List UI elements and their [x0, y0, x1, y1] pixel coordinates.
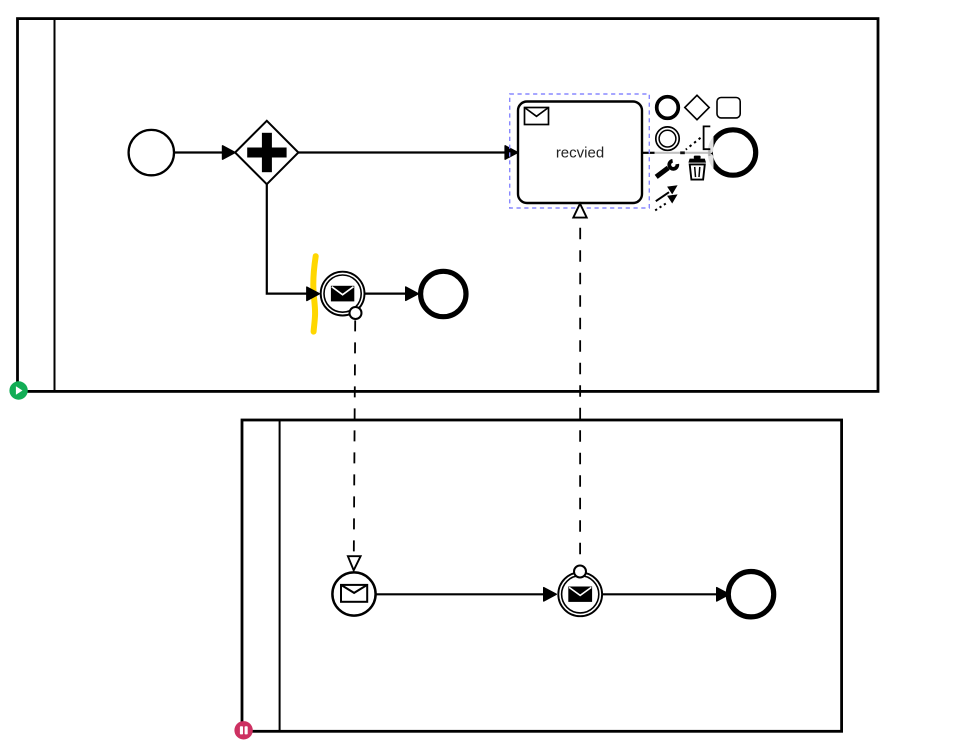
- sequence flow gateway->message throw event: [267, 183, 320, 301]
- token simulation pause badge (bottom pool): [234, 721, 252, 739]
- parallel gateway: [235, 121, 298, 184]
- message flow throw event -> message start (dashed): [348, 320, 361, 570]
- sequence flow throw->end (bottom pool): [602, 588, 729, 601]
- selection outline around task: [510, 94, 650, 208]
- context pad icon: text annotation: [686, 126, 711, 149]
- message flow dot on throw event: [350, 307, 362, 319]
- svg-text:recvied: recvied: [556, 145, 604, 162]
- sequence flow start->throw (bottom pool): [376, 588, 557, 601]
- pool Participant bottom: [242, 420, 842, 731]
- pool Participant top: [18, 19, 879, 392]
- sequence flow throw->end (top pool): [365, 287, 419, 300]
- token simulation play badge (top pool): [9, 381, 27, 399]
- sequence flow task->end event (appears greyed under context pad): [642, 150, 711, 156]
- context pad entry backgrounds: [654, 94, 744, 214]
- end event (bottom pool): [728, 572, 773, 617]
- context pad icon: trash (delete): [688, 156, 706, 180]
- message start event (bottom pool): [332, 572, 375, 615]
- message flow middle throw -> task (dashed): [573, 204, 586, 565]
- message flow dot on bottom throw event: [574, 566, 586, 578]
- context pad icon: wrench (replace): [656, 159, 679, 177]
- yellow highlight mark: [313, 256, 315, 331]
- end event (top pool, right of task): [710, 130, 755, 175]
- context pad icon: append end event: [657, 97, 679, 119]
- end event (top pool, after throw): [421, 271, 466, 316]
- start event (top pool): [129, 130, 174, 175]
- context pad icon: append intermediate event: [656, 127, 679, 150]
- context pad icon: connect (arrows): [655, 185, 677, 210]
- sequence flow gateway->task: [298, 146, 517, 159]
- context pad icon: append task: [717, 98, 740, 118]
- context pad icon: append gateway: [685, 95, 709, 119]
- message intermediate throw event (top pool): [321, 272, 365, 316]
- task recvied: [518, 102, 642, 204]
- message intermediate throw event (bottom pool): [558, 572, 602, 616]
- sequence flow start->gateway: [175, 146, 236, 159]
